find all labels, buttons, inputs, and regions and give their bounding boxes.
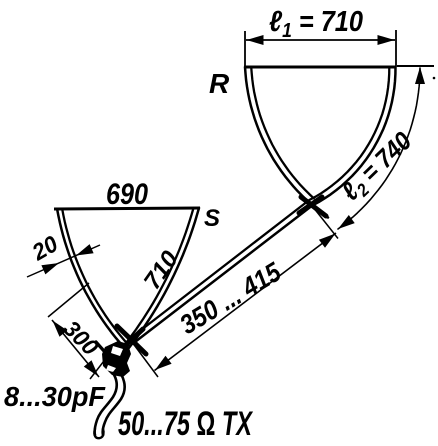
dimension 350...415 line [155,233,337,371]
speck artifact [433,77,436,80]
loop S right side outer conductor [121,208,199,358]
dimension l1 extension line right [395,30,397,67]
dimension 350 extension line left (from loop S vertex) [132,342,158,377]
dimension 350 arrow right [319,234,336,248]
dimension 300 extension tick top [48,283,89,317]
dimension l2 arrow bottom [338,215,355,229]
dimension 300 arrow top [53,321,68,337]
loop R right side inner conductor + feeder upper wire [130,67,390,339]
loop S left side inner conductor [62,209,128,345]
dimension l2 arrow top [415,67,425,84]
dimension l2 arc [338,68,420,229]
dimension l2 extension line top [397,65,434,67]
dimension 350 extension line right (from loop R vertex) [313,207,338,239]
loop R top edge [244,66,396,69]
svg-text:R: R [209,68,230,99]
dimension 300 arrow bottom [84,360,99,376]
capacitor blob white notch [111,346,123,356]
dimension 20 arrow left [41,263,59,274]
dimension 300 extension tick bottom [90,357,107,379]
capacitor blob white notch 2 [106,365,116,372]
dimension l1 line [246,39,395,41]
svg-text:8...30pF: 8...30pF [4,381,106,412]
loop S right side inner conductor [125,208,194,345]
dimension 300 line [52,320,99,377]
coax cable left conductor [95,373,117,435]
dimension 20 line [27,245,100,277]
loop R left side inner conductor [251,67,314,198]
dimension 350 arrow left [155,356,172,370]
loop R left side outer conductor [245,67,328,218]
coax cable end hook [94,429,103,438]
dimension l1 extension line left [244,31,246,67]
dimension 20 arrow right [76,244,94,255]
dimension l1 arrow right [378,35,395,45]
loop S left side outer conductor [57,209,129,353]
capacitor blob stub [96,342,104,351]
node: loop R vertex junction [299,197,326,216]
coax cable right conductor [103,374,125,435]
svg-text:S: S [204,205,220,232]
node: loop S vertex junction [114,326,146,356]
dimension l1 arrow left [247,35,264,45]
capacitor C (trimmer) body blob [102,341,131,377]
svg-text:50...75 Ω TX: 50...75 Ω TX [118,405,254,441]
svg-text:690: 690 [106,178,148,211]
loop R right side outer conductor + feeder lower wire [133,67,396,344]
loop S top edge [54,208,200,209]
